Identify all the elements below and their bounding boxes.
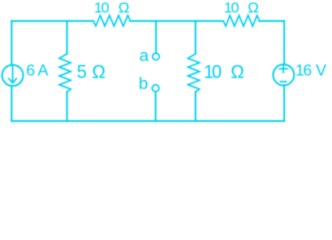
wire top right segment: [259, 20, 284, 22]
current source I1 6A circle: [2, 65, 23, 86]
svg-text:Ω: Ω: [248, 0, 259, 16]
current source arrow head: [9, 79, 17, 83]
svg-text:a: a: [139, 46, 149, 65]
node a terminal circle: [153, 53, 160, 60]
wire branch 10ohm lower: [195, 92, 197, 121]
svg-text:6: 6: [26, 63, 35, 80]
svg-text:b: b: [139, 74, 148, 93]
svg-text:10: 10: [204, 62, 222, 82]
svg-text:Ω: Ω: [231, 62, 244, 82]
svg-text:10: 10: [224, 0, 239, 16]
wire branch 5ohm upper: [66, 21, 68, 54]
wire node a stem: [155, 21, 157, 53]
svg-text:10: 10: [94, 0, 109, 16]
resistor R3 5 ohm vertical zigzag: [59, 54, 70, 92]
resistor R1 10 ohm horizontal zigzag: [93, 15, 130, 26]
svg-text:V: V: [316, 63, 327, 80]
wire node b stem: [155, 92, 157, 121]
wire top left segment: [12, 20, 94, 22]
svg-text:16: 16: [295, 63, 312, 80]
svg-text:5: 5: [77, 62, 87, 82]
wire right upper: [283, 21, 285, 65]
wire left lower: [11, 86, 13, 121]
resistor R4 10 ohm vertical zigzag: [188, 54, 199, 92]
wire right lower: [283, 85, 285, 121]
wire top middle segment: [130, 20, 223, 22]
wire bottom: [12, 120, 285, 122]
wire branch 10ohm upper: [195, 21, 197, 54]
svg-text:A: A: [38, 63, 49, 80]
current source arrow shaft: [12, 67, 14, 83]
resistor R2 10 ohm horizontal zigzag: [223, 15, 259, 26]
node b terminal circle: [152, 85, 159, 92]
voltage source V1 16V circle: [273, 64, 294, 85]
svg-text:Ω: Ω: [92, 62, 105, 82]
voltage source plus sign: [279, 68, 287, 70]
wire branch 5ohm lower: [66, 92, 68, 121]
svg-text:Ω: Ω: [118, 0, 129, 16]
voltage source minus sign: [280, 81, 286, 83]
wire left upper: [11, 21, 13, 65]
